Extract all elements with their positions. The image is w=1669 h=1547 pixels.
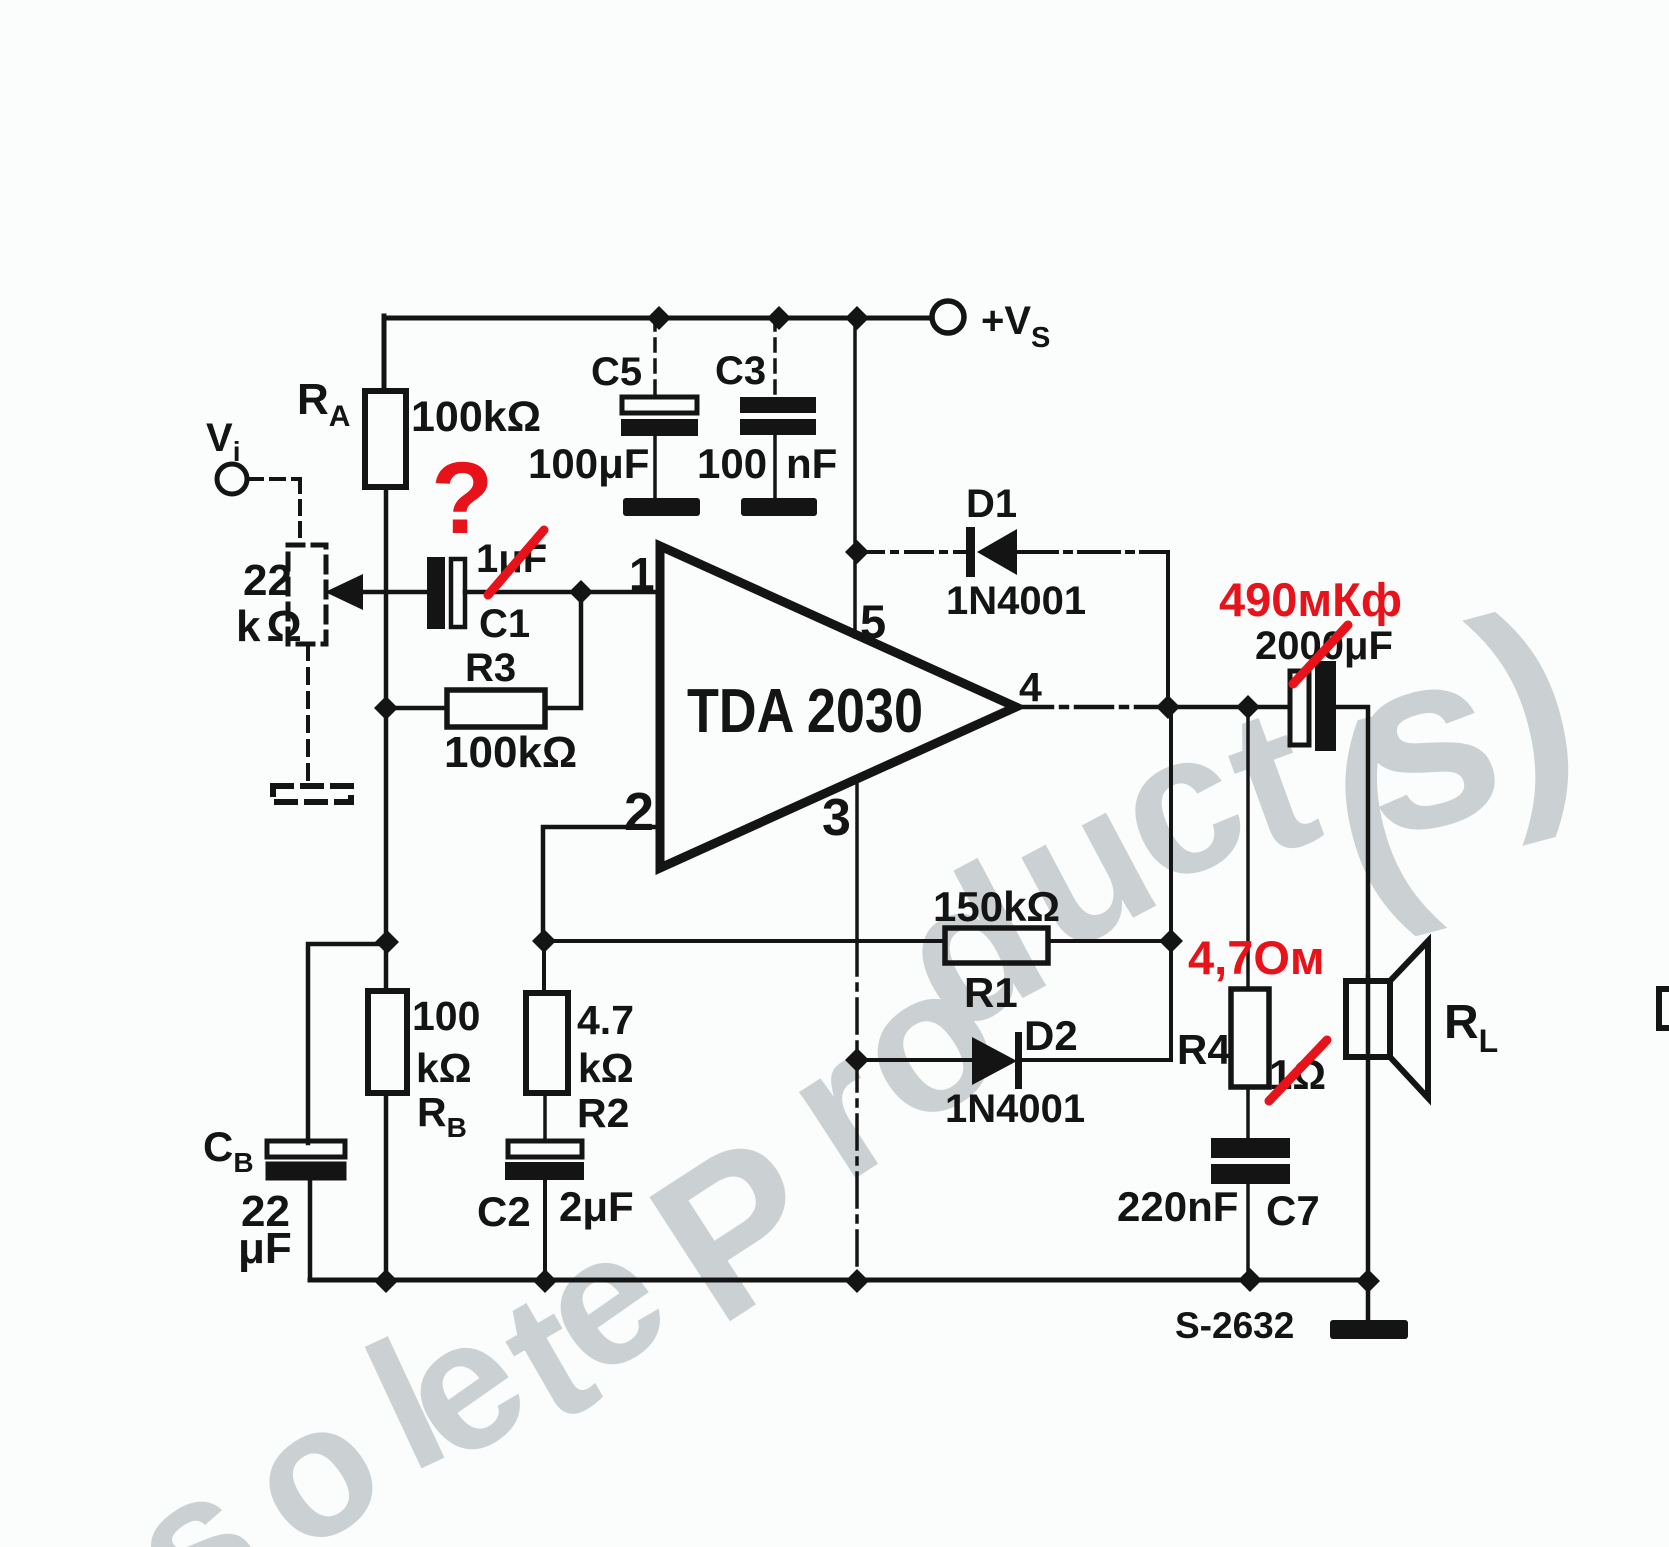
node rail-C2 (533, 1269, 557, 1293)
node rail-pin3 (845, 1269, 869, 1293)
svg-text:RA: RA (297, 375, 350, 433)
node output-R4 (1236, 695, 1260, 719)
wire R2 to C2 (543, 1093, 547, 1141)
wire D1 corner down to output (1166, 552, 1170, 707)
wire Vi dashed lead (249, 479, 300, 545)
wire CB bottom lead (308, 1180, 313, 1280)
wire D2 anode lead (857, 1058, 972, 1062)
wire pot bottom dashed (306, 645, 310, 783)
capacitor C1 plate left (427, 557, 445, 629)
svg-text:1N4001: 1N4001 (945, 1087, 1085, 1131)
svg-text:?: ? (431, 441, 493, 555)
wire output to R1 node vertical (1169, 707, 1173, 1060)
svg-text:D2: D2 (1024, 1012, 1078, 1059)
wire C5 to ground (653, 436, 657, 498)
capacitor C2 plate top (508, 1141, 582, 1157)
red slash over 2000uF (1293, 625, 1348, 684)
wire RA top lead (382, 316, 387, 391)
svg-text:100kΩ: 100kΩ (411, 393, 541, 441)
svg-text:100: 100 (697, 440, 767, 487)
wire R3 right lead up to pin1 node (545, 592, 581, 708)
svg-text:C7: C7 (1266, 1187, 1320, 1234)
red slash over 1uF (488, 530, 544, 595)
svg-text:R2: R2 (577, 1090, 629, 1136)
capacitor C7 plate top (1211, 1138, 1290, 1158)
capacitor C7 plate bottom (1211, 1164, 1290, 1184)
svg-text:220nF: 220nF (1117, 1183, 1238, 1230)
resistor R1 (945, 928, 1048, 963)
wire RB bottom lead (384, 1093, 389, 1281)
node rail-C7 (1238, 1268, 1262, 1292)
resistor RB (368, 991, 407, 1093)
wire C3 dashed lead (773, 318, 777, 397)
svg-text:TDA 2030: TDA 2030 (687, 677, 923, 746)
svg-text:R1: R1 (964, 969, 1018, 1016)
svg-text:μF: μF (238, 1224, 292, 1273)
wire D1 to corner (1017, 550, 1168, 554)
svg-text:RB: RB (417, 1089, 467, 1143)
wire wiper to C1 (363, 590, 427, 595)
diode D2 cathode bar (1015, 1032, 1022, 1089)
wire D2 cathode to corner (1022, 1058, 1171, 1062)
wire C7 bottom lead (1246, 1184, 1250, 1280)
wire bottom ground rail (310, 1278, 1368, 1283)
node output-D1 (1156, 695, 1180, 719)
svg-text:C3: C3 (715, 349, 766, 393)
wire output node to cap (1168, 705, 1290, 710)
resistor R2 (526, 993, 568, 1093)
capacitor CB plate bottom (266, 1162, 346, 1180)
resistor R4 (1231, 989, 1269, 1087)
wire output pin4 dash-dot (1016, 705, 1168, 710)
terminal Vi (217, 464, 247, 494)
svg-text:1: 1 (629, 548, 655, 600)
capacitor 2000uF plate + (1290, 671, 1309, 745)
wire pin3 vertical lower dash-dot (855, 941, 859, 1280)
node bias RB-CB (375, 930, 399, 954)
svg-text:R3: R3 (465, 646, 516, 690)
node D1 tap (845, 540, 869, 564)
potentiometer 22k body (dashed) (288, 545, 326, 644)
svg-text:150kΩ: 150kΩ (933, 883, 1060, 930)
svg-text:nF: nF (786, 440, 837, 487)
svg-text:4: 4 (1019, 664, 1042, 710)
svg-text:100: 100 (412, 993, 480, 1039)
diode D1 triangle (977, 529, 1017, 575)
wire left bias vertical (384, 487, 389, 991)
svg-text:C2: C2 (477, 1188, 531, 1235)
wire C2 bottom lead (543, 1180, 547, 1280)
ground C3 bar (741, 498, 817, 516)
wire CB top jog to bias node (308, 944, 386, 1143)
node pin2-R2 (532, 929, 556, 953)
svg-text:kΩ: kΩ (416, 1045, 472, 1091)
wire R4 top lead (1246, 707, 1250, 989)
potentiometer wiper arrow (325, 574, 363, 610)
capacitor C3 plate bottom (740, 419, 816, 435)
ground C5 bar (623, 498, 700, 516)
op-amp U1 TDA2030 (660, 546, 1016, 868)
ground pot (dashed chassis) (273, 786, 351, 802)
svg-text:R4: R4 (1177, 1026, 1231, 1073)
svg-text:4,7Ом: 4,7Ом (1188, 931, 1325, 984)
svg-text:4.7: 4.7 (577, 997, 634, 1043)
svg-text:kΩ: kΩ (236, 602, 308, 651)
node rail-RB (374, 1269, 398, 1293)
node rail-C3 (767, 306, 791, 330)
fragment right edge (1659, 989, 1669, 1028)
node R1-right (1159, 929, 1183, 953)
wire D1 anode dash-dot (857, 550, 969, 554)
capacitor C3 plate top (740, 397, 816, 413)
capacitor CB plate top (267, 1141, 345, 1157)
diode D1 cathode bar (966, 527, 975, 577)
svg-text:5: 5 (860, 595, 886, 648)
svg-text:22: 22 (243, 556, 292, 605)
node D2-pin3 (845, 1048, 869, 1072)
svg-text:+VS: +VS (981, 299, 1050, 354)
wire top +Vs rail (384, 316, 932, 321)
wire R4 to C7 (1246, 1087, 1250, 1138)
svg-text:kΩ: kΩ (578, 1045, 634, 1091)
node R3 left (374, 696, 398, 720)
node rail-C5 (647, 306, 671, 330)
svg-text:1N4001: 1N4001 (946, 579, 1086, 623)
wire pin5 vertical (853, 318, 857, 637)
watermark obsolete Product(s) (93, 556, 1603, 1547)
node rail-speaker (1356, 1269, 1380, 1293)
wire speaker bottom (1366, 977, 1371, 1320)
ground speaker bar (1330, 1320, 1408, 1339)
capacitor 2000uF plate - (1315, 661, 1336, 751)
svg-text:D1: D1 (966, 482, 1017, 526)
resistor RA (365, 391, 406, 487)
svg-text:2: 2 (624, 782, 654, 842)
wire cap to speaker corner (1336, 707, 1368, 981)
red slash over 1 Ohm (1269, 1040, 1327, 1101)
wire R3 left lead (386, 706, 447, 711)
resistor R3 (447, 690, 545, 727)
svg-text:S-2632: S-2632 (1175, 1305, 1294, 1346)
capacitor C1 plate right (451, 559, 465, 627)
svg-text:2μF: 2μF (559, 1183, 634, 1230)
capacitor C5 plate - (621, 419, 698, 436)
terminal +Vs (932, 301, 964, 333)
speaker RL horn (1390, 941, 1428, 1098)
wire pin3 vertical upper (855, 779, 859, 941)
wire R1 right lead (1048, 939, 1171, 943)
svg-text:3: 3 (822, 789, 851, 847)
svg-text:CB: CB (203, 1123, 254, 1178)
speaker RL box (1346, 981, 1390, 1057)
wire R2 top lead (542, 941, 546, 993)
wire C3 to ground (773, 435, 777, 498)
svg-text:100kΩ: 100kΩ (444, 728, 577, 777)
diode D2 triangle (972, 1037, 1017, 1085)
capacitor C2 plate bottom (505, 1162, 584, 1180)
svg-text:RL: RL (1444, 996, 1498, 1059)
svg-text:100μF: 100μF (528, 440, 649, 487)
svg-text:C5: C5 (591, 350, 642, 394)
svg-text:C1: C1 (479, 602, 530, 646)
junction node dots (374, 306, 1380, 1293)
svg-text:Vi: Vi (206, 416, 240, 467)
wire C5 dashed lead (653, 318, 657, 397)
wire feedback line (543, 939, 945, 943)
capacitor C5 plate + (622, 397, 697, 413)
node rail-pin5 (845, 306, 869, 330)
wire pin2 lead (543, 827, 660, 941)
wire C1 to pin1 (465, 590, 660, 595)
node C1-R3-pin1 (569, 580, 593, 604)
svg-text:490мКф: 490мКф (1219, 573, 1402, 626)
